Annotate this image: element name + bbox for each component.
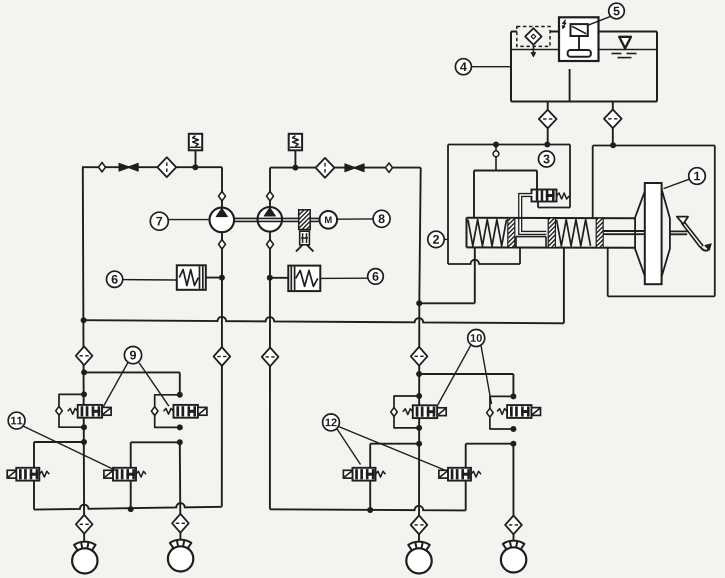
pump2 discharge line [270,167,421,169]
master cylinder chamber step [516,237,546,248]
label 4 [455,59,471,75]
solenoid valve 9a [68,405,111,418]
wire 11a down [33,481,35,510]
label 6 left [107,271,123,287]
label 8 [373,210,390,227]
suction filter drop arrow [531,45,535,57]
valve 3 inlet pipe [520,195,546,233]
relief stem left [195,150,197,167]
branch wire to 12a [370,444,419,468]
return bus right [270,506,466,513]
piston 1 [508,218,515,248]
node relief left [192,164,198,170]
pump1 bottom line [221,232,223,507]
label 2 pointer [444,238,448,240]
wire 11b down [130,481,132,510]
node 10b out [510,441,516,447]
node accumulator left [219,275,225,281]
tank line filter right [604,110,622,129]
booster box [593,146,715,297]
solenoid valve 11b [104,468,146,481]
filter wheel 1 [76,515,93,534]
tank line filter left [539,110,557,129]
wire tank to booster box [610,128,616,148]
box3 bottom edge with hop [448,248,520,264]
level indicator triangle [619,37,631,49]
level ripples [612,54,637,58]
box3 bottom-right edge [538,202,570,208]
pump2 port diamond top [267,192,274,201]
pump2 port diamond bottom [267,240,274,249]
reservoir tank 4 outline [511,32,657,102]
label 6 left pointer [123,279,177,281]
node relief right [292,165,298,171]
branch wire to 11a [34,442,84,468]
valve 10b bypass [487,393,517,432]
pump 7 [210,208,235,233]
wheel cylinder 2 [168,540,193,572]
label 12 [323,414,340,431]
coupling [299,210,311,230]
label 12 pointers [337,427,448,471]
check node diamond right [386,163,393,172]
filter left feed [76,346,93,365]
box3 left edge [447,145,449,265]
pump 7b [258,207,283,232]
relief stem right [294,150,296,167]
wheel line 10b [512,444,514,547]
relief valve left [189,134,202,151]
filter wheel 2 [172,514,189,533]
label 7 [150,212,168,230]
label 7 pointer [168,219,209,221]
label 1 pointer [664,179,690,188]
label 10 [468,330,485,347]
left main vertical [83,167,84,548]
filter wheel 3 [411,516,428,535]
branch wire to 11b [131,442,180,468]
box3 top edge [448,144,570,146]
wheel line 9b [179,442,182,546]
accumulator 6 left [177,265,206,290]
master cylinder spring 1 [468,220,507,246]
suction filter diamond [525,28,541,45]
valve 3 spring [557,193,570,199]
line filter left [157,157,176,177]
node 9b out [177,439,183,445]
pump1 port diamond bottom [219,240,226,249]
brake pedal lever [682,222,712,251]
node branch left [81,369,87,375]
filter pump1 return [214,347,231,366]
pressure control valve 3 body [532,190,557,202]
pump2 top port [269,168,271,207]
filter pump2 return [262,348,279,367]
label 3 [539,151,555,167]
label 11 pointer [24,426,119,471]
node accumulator right [267,275,273,281]
label 2 [428,231,444,247]
relief valve right [289,134,302,151]
line filter right [316,158,335,178]
solenoid valve 12b [439,468,481,481]
return bus left [34,503,222,512]
branch wire to 12b [466,444,514,468]
supply bus [81,317,564,324]
solenoid valve 10a [403,405,446,418]
label 4 pointer [471,66,511,68]
motor 8 [320,211,338,229]
node branch right [416,371,422,377]
float [568,50,591,57]
wheel cylinder 4 [501,541,526,573]
vent circle [493,147,499,171]
right main vertical [419,168,421,548]
pump1 top port [221,167,223,207]
float switch box 5 [559,17,599,61]
pump1 port diamond top [219,192,226,201]
check valve right [345,164,364,172]
wheel cylinder 1 [72,542,97,574]
box3 right edge [569,145,571,208]
branch wire to 9b [84,372,180,394]
solenoid valve 9b [164,405,207,418]
electric actuation zigzag [562,20,566,29]
coupling mount [296,231,313,251]
solenoid valve 10b [497,405,540,418]
tank baffle [569,69,571,102]
inner pipe box [474,171,537,218]
wire to master cylinder port [419,248,475,303]
label 9 [124,347,141,364]
float stem [578,36,580,50]
accumulator 6 right [288,266,320,292]
solenoid valve 12a [343,468,385,481]
fluid level line [511,49,657,51]
label 9 pointers [103,362,168,406]
label 6 right pointer [320,277,368,279]
node 9a out [81,439,87,445]
pushrod [603,231,645,234]
label 11 [8,412,25,429]
drive shaft [234,218,320,221]
pump1 discharge line [82,166,222,168]
node branch to master cylinder [416,300,422,306]
wire 12a down [369,481,371,510]
node on box3 top [493,142,499,148]
pump2 bottom line [269,232,271,510]
node 10a out [416,441,422,447]
label 8 pointer [337,218,373,220]
branch wire to 10b [419,374,513,396]
check node diamond left [99,163,106,172]
wire tank to box3 [544,128,550,147]
solenoid valve 11a [7,468,49,481]
brake pedal pad [677,217,688,225]
booster body [635,183,670,284]
valve 9a bypass [56,391,87,430]
master cylinder output drop [563,248,565,323]
valve 10a bypass [391,393,422,431]
label 10 pointers [438,345,492,405]
piston 3 [596,218,603,248]
label 5 [609,3,625,19]
wheel cylinder 3 [406,542,431,574]
wire 12b down [465,481,467,511]
master cylinder shell [467,218,636,248]
check valve left [119,163,138,171]
wire accumulator right [270,277,289,279]
filter right feed [411,347,428,366]
suction filter dashed box [517,27,550,47]
label 1 [689,168,706,185]
float switch element [571,24,588,36]
filter wheel 4 [505,516,522,535]
label 6 right [368,269,384,285]
tank outlet stub right [612,102,614,110]
booster output rod [670,231,689,234]
wire accumulator left [206,277,222,279]
master cylinder spring 2 [557,220,591,246]
label 5 pointer [588,16,611,25]
valve 9b bypass [151,392,182,431]
piston 2 [548,218,555,248]
tank outlet stub left [547,102,549,111]
